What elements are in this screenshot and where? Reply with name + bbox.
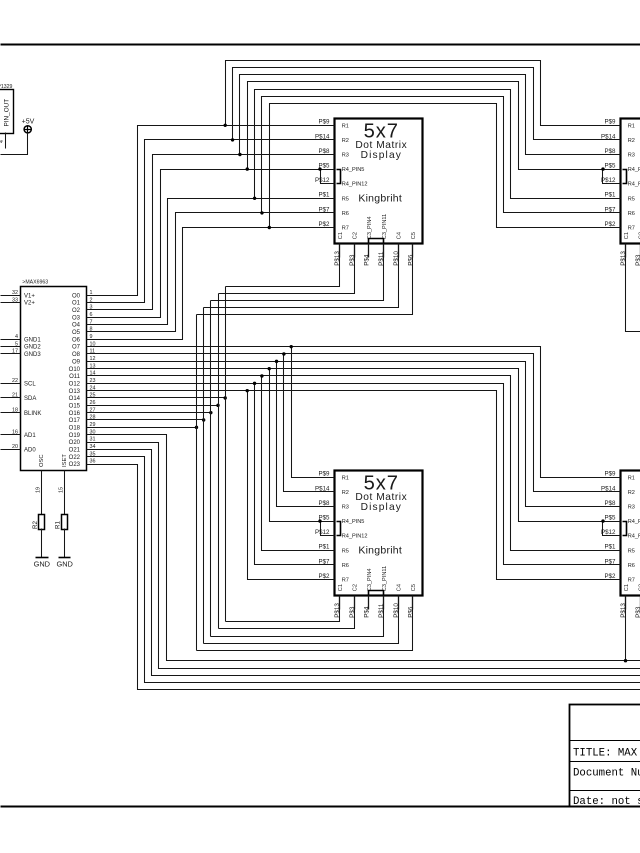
display DIS1 top 5x7 dot-matrix body (335, 119, 423, 244)
IC U1 pin 5 GND2 wire (1, 346, 21, 348)
svg-text:O1: O1 (72, 301, 81, 307)
svg-text:0P1329: 0P1329 (0, 84, 13, 90)
svg-text:C1: C1 (624, 584, 630, 591)
wire net BROW4 drop to DIS3 (270, 369, 335, 522)
svg-text:Display: Display (361, 150, 402, 161)
svg-text:BLINK: BLINK (24, 411, 41, 417)
wire net COL3 link to DIS3 (211, 596, 384, 637)
IC U1 pin 21 SDA wire (1, 397, 21, 399)
svg-text:O20: O20 (69, 440, 81, 446)
svg-text:R6: R6 (342, 563, 349, 569)
svg-text:R4_PIN5: R4_PIN5 (628, 167, 640, 173)
svg-text:R7: R7 (342, 226, 349, 232)
wire R1 to GND (64, 529, 66, 558)
wire net COL4 link to DIS1 (204, 244, 399, 308)
resistor R1 (62, 515, 68, 530)
svg-text:31: 31 (90, 437, 96, 443)
svg-text:PIN_OUT: PIN_OUT (3, 99, 10, 127)
svg-text:O18: O18 (69, 425, 81, 431)
display DIS1 top C3 joining bracket (369, 239, 384, 243)
wire net ROW3 top pair (O2) (87, 155, 335, 310)
junction net ROW6 (260, 211, 263, 214)
svg-text:R4_PIN5: R4_PIN5 (628, 519, 640, 525)
junction net BROW4 (268, 367, 271, 370)
svg-text:P$4: P$4 (363, 606, 370, 618)
ground symbol R1 (59, 557, 71, 559)
svg-text:R4_PIN5: R4_PIN5 (342, 519, 365, 525)
svg-text:R5: R5 (342, 196, 349, 202)
junction net COL5 (195, 426, 198, 429)
svg-text:C2: C2 (352, 584, 358, 591)
wire net COL4 vertical trunk (203, 308, 205, 644)
wire net BROW2 bottom pair (O8) (87, 354, 621, 492)
wire net COL1 link to DIS3 (226, 596, 340, 622)
display DIS3 bottom R4 joining bracket (337, 522, 341, 536)
wire IC pin 19 to R2 (41, 471, 43, 515)
svg-text:O7: O7 (72, 345, 81, 351)
IC U1 pin 17 GND3 wire (1, 353, 21, 355)
wire net RCOL1 right pair (O19) (87, 435, 640, 661)
svg-text:Date: not sa: Date: not sa (573, 796, 640, 808)
svg-text:R5: R5 (628, 196, 635, 202)
junction net COL1 (224, 396, 227, 399)
junction R4 link DIS4 (601, 519, 604, 522)
wire net ROW3 riser to top bus (240, 75, 621, 155)
svg-text:P$5: P$5 (604, 163, 616, 170)
svg-text:O23: O23 (69, 462, 81, 468)
svg-text:C4: C4 (397, 584, 403, 591)
svg-text:18: 18 (12, 407, 18, 413)
wire net COL3 link to DIS1 (211, 244, 384, 301)
wire net COL3 vertical trunk (210, 301, 212, 637)
wire net BROW7 bottom pair (O13) (87, 391, 621, 580)
svg-text:R4_PIN12: R4_PIN12 (342, 182, 368, 188)
svg-text:R5: R5 (342, 548, 349, 554)
svg-text:O11: O11 (69, 374, 81, 380)
display DIS2 top-right R4 joining bracket (623, 170, 627, 184)
svg-text:R7: R7 (628, 578, 635, 584)
svg-text:P$2: P$2 (604, 221, 616, 228)
wire net COL2 vertical trunk (218, 294, 220, 629)
svg-text:4: 4 (0, 140, 5, 143)
junction net BROW5 (260, 374, 263, 377)
svg-text:R1: R1 (342, 123, 349, 129)
svg-text:R7: R7 (628, 226, 635, 232)
svg-text:R2: R2 (628, 138, 635, 144)
svg-text:O19: O19 (69, 433, 81, 439)
wire R2 to GND (41, 529, 43, 558)
svg-text:GND1: GND1 (24, 337, 41, 343)
junction net ROW1 (224, 124, 227, 127)
junction net ROW4 (246, 167, 249, 170)
svg-text:P$1: P$1 (318, 192, 330, 199)
svg-text:33: 33 (12, 297, 18, 303)
svg-text:16: 16 (12, 429, 18, 435)
wire net ROW5 riser to top bus (255, 90, 621, 199)
svg-text:C5: C5 (411, 584, 417, 591)
display DIS4 bottom-right bottom pin stubs (625, 596, 627, 610)
wire net RCOL3 right pair (O21) (87, 450, 640, 676)
svg-text:P$1: P$1 (604, 544, 616, 551)
svg-text:O17: O17 (69, 418, 81, 424)
wire net BROW7 drop to DIS3 (248, 391, 335, 580)
svg-text:19: 19 (36, 487, 42, 493)
svg-text:R6: R6 (342, 211, 349, 217)
svg-text:Display: Display (361, 502, 402, 513)
svg-text:O21: O21 (69, 447, 81, 453)
svg-text:O0: O0 (72, 293, 81, 299)
svg-text:R2: R2 (628, 490, 635, 496)
wire net ROW4 riser to top bus (248, 82, 621, 170)
svg-text:R3: R3 (342, 505, 349, 511)
wire net ROW7 top pair (O6) (87, 228, 335, 340)
wire net BROW3 drop to DIS3 (277, 362, 335, 507)
svg-text:ISET: ISET (62, 454, 68, 467)
svg-text:Kingbriht: Kingbriht (358, 193, 402, 205)
wire net ROW5 top pair (O4) (87, 199, 335, 325)
svg-text:V2+: V2+ (24, 301, 35, 307)
svg-text:R2: R2 (342, 490, 349, 496)
svg-text:P$8: P$8 (604, 148, 616, 155)
svg-text:C3_PIN11: C3_PIN11 (382, 214, 388, 239)
svg-text:R1: R1 (628, 475, 635, 481)
wire net ROW1 riser to top bus (226, 61, 621, 126)
svg-text:R3: R3 (628, 505, 635, 511)
IC U1 pin 32 V1+ wire (1, 295, 21, 297)
svg-text:P$2: P$2 (604, 573, 616, 580)
svg-text:P$3: P$3 (635, 606, 640, 618)
svg-text:C3_PIN4: C3_PIN4 (367, 568, 373, 591)
wire R4_PIN12 link DIS4 (603, 522, 621, 536)
wire net ROW2 top pair (O1) (87, 140, 335, 303)
wire net BROW4 bottom pair (O10) (87, 369, 621, 522)
svg-text:P$11: P$11 (378, 603, 385, 618)
svg-text:4: 4 (15, 334, 18, 340)
junction net ROW3 (238, 153, 241, 156)
svg-text:O2: O2 (72, 308, 81, 314)
junction net BROW1 (290, 345, 293, 348)
svg-text:C3_PIN11: C3_PIN11 (382, 566, 388, 591)
junction net ROW2 (231, 138, 234, 141)
wire net ROW4 top pair (O3) (87, 170, 335, 318)
svg-text:32: 32 (12, 290, 18, 296)
svg-text:O22: O22 (69, 455, 81, 461)
svg-text:P$8: P$8 (318, 148, 330, 155)
svg-text:R3: R3 (628, 153, 635, 159)
resistor R2 (39, 515, 45, 530)
svg-text:R6: R6 (628, 211, 635, 217)
svg-text:AD0: AD0 (24, 447, 36, 453)
display DIS2 top-right bottom pin stubs (625, 244, 627, 258)
wire net BROW3 bottom pair (O9) (87, 362, 621, 507)
svg-text:17: 17 (12, 349, 18, 355)
svg-text:R4_PIN12: R4_PIN12 (628, 534, 640, 540)
svg-text:C1: C1 (338, 584, 344, 591)
svg-text:R1: R1 (55, 521, 62, 529)
svg-text:P$13: P$13 (334, 251, 341, 266)
svg-text:O16: O16 (69, 411, 81, 417)
svg-text:O12: O12 (69, 381, 81, 387)
svg-text:P$8: P$8 (604, 500, 616, 507)
wire R4_PIN12 link DIS3 (321, 522, 335, 536)
svg-text:P$9: P$9 (318, 119, 330, 126)
ground symbol R2 (36, 557, 49, 559)
wire net COL3 left pair (O16) (87, 412, 211, 414)
svg-text:5: 5 (15, 341, 18, 347)
svg-text:O9: O9 (72, 359, 81, 365)
svg-text:P$2: P$2 (318, 573, 330, 580)
svg-text:TITLE: MAX: TITLE: MAX (573, 748, 638, 760)
wire net ROW1 top pair (O0) (87, 126, 335, 296)
svg-text:P$1: P$1 (318, 544, 330, 551)
junction DIS4 C1 (624, 659, 627, 662)
IC U1 pin 18 BLINK wire (1, 412, 21, 414)
junction net BROW7 (246, 389, 249, 392)
svg-text:P$4: P$4 (363, 254, 370, 266)
junction R4 link DIS1 (318, 167, 321, 170)
svg-text:O13: O13 (69, 389, 81, 395)
svg-text:15: 15 (58, 487, 64, 493)
wire net BROW6 drop to DIS3 (255, 384, 335, 565)
svg-text:P$2: P$2 (318, 221, 330, 228)
svg-text:O6: O6 (72, 337, 81, 343)
display DIS3 bottom C3 joining bracket (369, 591, 384, 595)
wire net COL5 vertical trunk (196, 315, 198, 651)
junction net ROW7 (268, 226, 271, 229)
svg-text:Document Nu: Document Nu (573, 767, 640, 779)
display DIS2 top-right 5x7 dot-matrix body (621, 119, 640, 244)
IC U1 pin 20 AD0 wire (1, 449, 21, 451)
junction net BROW2 (282, 352, 285, 355)
wire net RCOL2 right pair (O20) (87, 443, 640, 669)
svg-text:P$9: P$9 (604, 119, 616, 126)
wire net COL2 link to DIS3 (219, 596, 355, 629)
svg-text:22: 22 (12, 378, 18, 384)
svg-text:+5V: +5V (22, 119, 35, 126)
svg-text:36: 36 (90, 459, 96, 465)
IC U1 MAX6963 body (21, 287, 87, 471)
wire DIS2 C1 exits right (626, 244, 640, 332)
svg-text:P$13: P$13 (620, 603, 627, 618)
svg-text:R4_PIN5: R4_PIN5 (342, 167, 365, 173)
svg-text:21: 21 (12, 393, 18, 399)
IC U1 pin 4 GND1 wire (1, 339, 21, 341)
wire net BROW5 bottom pair (O11) (87, 376, 621, 551)
svg-text:R4_PIN12: R4_PIN12 (628, 182, 640, 188)
display DIS3 bottom 5x7 dot-matrix body (335, 471, 423, 596)
svg-text:Dot Matrix: Dot Matrix (355, 492, 407, 503)
wire net COL4 left pair (O17) (87, 419, 204, 421)
sheet frame bottom border (1, 806, 640, 808)
svg-text:Kingbriht: Kingbriht (358, 545, 402, 557)
svg-text:P$13: P$13 (620, 251, 627, 266)
svg-text:R6: R6 (628, 563, 635, 569)
svg-text:AD1: AD1 (24, 433, 36, 439)
wire net COL2 link to DIS1 (219, 244, 355, 294)
svg-text:20: 20 (12, 444, 18, 450)
wire net COL5 left pair (O18) (87, 427, 197, 429)
svg-text:SDA: SDA (24, 396, 36, 402)
svg-text:O10: O10 (69, 367, 81, 373)
svg-text:O8: O8 (72, 352, 81, 358)
svg-text:R3: R3 (342, 153, 349, 159)
title block frame (570, 705, 640, 807)
junction net BROW3 (275, 360, 278, 363)
svg-text:R7: R7 (342, 578, 349, 584)
svg-text:R2: R2 (342, 138, 349, 144)
svg-text:R1: R1 (628, 123, 635, 129)
wire net RCOL4 right pair (O22) (87, 457, 640, 683)
svg-text:O3: O3 (72, 315, 81, 321)
svg-text:R1: R1 (342, 475, 349, 481)
svg-text:P$6: P$6 (408, 254, 415, 266)
svg-text:C3_PIN4: C3_PIN4 (367, 216, 373, 239)
svg-text:V1+: V1+ (24, 293, 35, 299)
svg-text:R2: R2 (32, 521, 39, 529)
connector P1329 pin 4 (5, 133, 7, 149)
svg-text:P$13: P$13 (334, 603, 341, 618)
wire net ROW7 riser to top bus (270, 104, 621, 228)
svg-text:>MAX6963: >MAX6963 (22, 280, 48, 286)
svg-text:P$8: P$8 (318, 500, 330, 507)
wire net BROW1 drop to DIS3 (292, 347, 335, 478)
wire R4_PIN12 link DIS1 (321, 170, 335, 184)
junction net COL4 (202, 418, 205, 421)
svg-text:SCL: SCL (24, 381, 36, 387)
junction net COL3 (209, 411, 212, 414)
wire net COL5 link to DIS3 (197, 596, 413, 651)
wire +5V net (1, 133, 28, 155)
svg-text:OSC: OSC (39, 454, 45, 467)
wire net COL1 link to DIS1 (226, 244, 340, 287)
svg-text:C4: C4 (397, 232, 403, 239)
svg-text:P$9: P$9 (604, 471, 616, 478)
wire net BROW1 bottom pair (O7) (87, 347, 621, 478)
svg-text:Dot Matrix: Dot Matrix (355, 140, 407, 151)
wire net COL4 link to DIS3 (204, 596, 399, 644)
wire net RCOL5 right pair (O23) (87, 465, 640, 690)
junction net COL2 (216, 404, 219, 407)
svg-text:O15: O15 (69, 403, 81, 409)
svg-text:R4_PIN12: R4_PIN12 (342, 534, 368, 540)
wire net ROW6 riser to top bus (262, 97, 621, 213)
junction net ROW5 (253, 197, 256, 200)
svg-text:P$11: P$11 (378, 251, 385, 266)
display DIS1 top bottom pin stubs (339, 244, 341, 258)
svg-text:P$1: P$1 (604, 192, 616, 199)
svg-text:P$6: P$6 (408, 606, 415, 618)
display DIS4 bottom-right 5x7 dot-matrix body (621, 471, 640, 596)
svg-text:C1: C1 (624, 232, 630, 239)
wire net COL2 left pair (O15) (87, 405, 219, 407)
svg-text:C1: C1 (338, 232, 344, 239)
wire R4_PIN12 link DIS2 (603, 170, 621, 184)
svg-text:P$3: P$3 (635, 254, 640, 266)
wire net BROW2 drop to DIS3 (284, 354, 335, 492)
svg-text:C5: C5 (411, 232, 417, 239)
svg-text:GND: GND (56, 560, 72, 569)
svg-text:GND3: GND3 (24, 352, 41, 358)
wire net ROW2 riser to top bus (233, 68, 621, 140)
IC U1 pin 16 AD1 wire (1, 434, 21, 436)
junction R4 link DIS2 (601, 167, 604, 170)
svg-text:GND: GND (34, 560, 50, 569)
wire net BROW6 bottom pair (O12) (87, 384, 621, 565)
display DIS4 bottom-right R4 joining bracket (623, 522, 627, 536)
wire net BROW5 drop to DIS3 (262, 376, 335, 551)
+5V supply symbol (24, 126, 31, 133)
wire net COL1 left pair (O14) (87, 397, 226, 399)
sheet frame top border (1, 44, 640, 46)
display DIS1 top R4 joining bracket (337, 170, 341, 184)
junction R4 link DIS3 (318, 519, 321, 522)
connector P1329 body PIN_OUT (0, 90, 14, 134)
junction net BROW6 (253, 382, 256, 385)
IC U1 pin 33 V2+ wire (1, 302, 21, 304)
svg-text:P$9: P$9 (318, 471, 330, 478)
wire net COL1 vertical trunk (225, 287, 227, 622)
svg-text:R5: R5 (628, 548, 635, 554)
wire net ROW6 top pair (O5) (87, 213, 335, 332)
display DIS3 bottom bottom pin stubs (339, 596, 341, 610)
svg-text:GND2: GND2 (24, 345, 41, 351)
wire DIS4 C1 to bus (625, 596, 627, 661)
wire IC pin 15 to R1 (64, 471, 66, 515)
wire net COL5 link to DIS1 (197, 244, 413, 315)
svg-text:O5: O5 (72, 330, 81, 336)
svg-text:P$5: P$5 (604, 515, 616, 522)
svg-text:C2: C2 (352, 232, 358, 239)
IC U1 pin 22 SCL wire (1, 383, 21, 385)
svg-text:O4: O4 (72, 323, 81, 329)
svg-text:O14: O14 (69, 396, 81, 402)
